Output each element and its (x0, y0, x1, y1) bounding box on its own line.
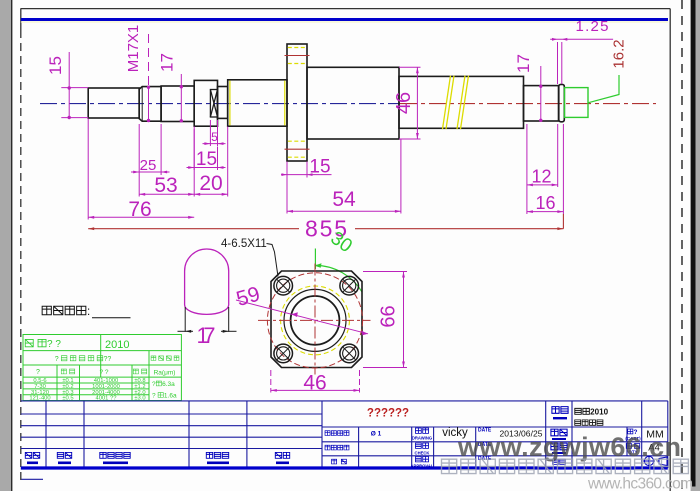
svg-text:Ø 1: Ø 1 (371, 431, 382, 438)
shaft section S2 (thread M17X1) (139, 87, 161, 122)
shaft section S7 (nut body d46) (307, 67, 399, 139)
dim 12 (526, 124, 528, 214)
shaft section S1 (left journal d15) (88, 88, 139, 118)
drawing frame right (669, 9, 671, 491)
arrows 15 flange (282, 173, 288, 176)
label 客户 (332, 459, 347, 464)
label 比例 (628, 429, 638, 436)
svg-text:4-6.5X11: 4-6.5X11 (221, 238, 267, 250)
yellow dashed circle (281, 286, 350, 355)
svg-text:??????: ?????? (367, 408, 409, 420)
arrows 16 (527, 210, 533, 213)
svg-text:1.6a: 1.6a (164, 393, 177, 400)
label 图号 (551, 429, 567, 436)
red bolt circle (267, 273, 362, 368)
flange side view (287, 44, 307, 161)
shaft section S4 (194, 80, 217, 126)
arrows 12 (527, 184, 533, 187)
bore circle outer (284, 289, 346, 351)
dim 66 (363, 272, 407, 368)
svg-text:??: ?? (103, 356, 111, 363)
dots 17 left (180, 85, 183, 88)
svg-text:5: 5 (211, 130, 218, 144)
thick blue bottom line (21, 466, 668, 469)
svg-text:DRAWING: DRAWING (412, 436, 432, 441)
blue header line (21, 18, 668, 21)
svg-text:17: 17 (158, 53, 177, 72)
svg-text:17: 17 (514, 54, 533, 73)
label 日期 (57, 452, 71, 458)
right gray margin band (696, 0, 700, 491)
green table subheader col4 (133, 369, 147, 374)
svg-text:?: ? (36, 369, 40, 376)
green table header row2 (25, 339, 61, 350)
svg-text:76: 76 (128, 198, 151, 221)
label 数量 (626, 444, 640, 449)
text 客户确认 (42, 306, 90, 318)
bolt holes (274, 276, 359, 362)
dim 53 (138, 175, 140, 197)
flange square (271, 271, 362, 368)
dim 17 right (540, 66, 542, 121)
circlip groove (559, 84, 565, 121)
arrows 1.25 (552, 38, 558, 41)
shaft section S6 (228, 80, 287, 126)
label 修改内容 (100, 452, 130, 458)
left paper edge line (11, 0, 13, 491)
dome shape (185, 249, 229, 314)
shaft section S3 (d17) (161, 86, 194, 122)
yellow dashed holes in flange side (288, 48, 306, 158)
red 855 arrows (88, 227, 563, 230)
svg-text:1.25: 1.25 (576, 18, 609, 35)
outer dashed trim line right (681, 0, 683, 491)
svg-text:15: 15 (309, 157, 330, 178)
yellow line S6 left (229, 81, 231, 126)
faint yellow line under blue (21, 21, 668, 23)
shaft section S8 (screw body) (399, 76, 524, 128)
svg-text:66: 66 (378, 305, 400, 327)
dots 17 right (539, 85, 542, 88)
text 日本2010 (575, 408, 609, 417)
yellow line S6 right (284, 81, 286, 126)
label 单位 (553, 459, 566, 464)
dim 1.25 (557, 42, 559, 84)
dim 59 diagonal (236, 300, 368, 334)
title block lines (322, 426, 668, 428)
label 修改者 (206, 452, 228, 458)
right paper edge black strip (691, 0, 696, 487)
yellow screw break marks (443, 76, 469, 130)
projection symbol (643, 456, 667, 467)
svg-text:? ?: ? ? (99, 369, 108, 376)
label 图名 (552, 407, 568, 414)
arrows 54 (287, 210, 293, 213)
svg-text:?: ? (55, 356, 59, 363)
green end piece (565, 75, 620, 117)
dim d15 left (61, 87, 88, 89)
svg-text:www.hc360.com: www.hc360.com (587, 476, 693, 491)
arrows 25 (133, 171, 139, 174)
svg-text:15: 15 (46, 56, 65, 75)
label 复核 (415, 443, 428, 448)
svg-text:25: 25 (140, 157, 157, 174)
red centerline vertical (314, 264, 316, 375)
svg-text:www.zgwjw66.cn: www.zgwjw66.cn (457, 432, 681, 462)
svg-text:2010: 2010 (105, 339, 129, 351)
dim 15 (S4) (193, 129, 195, 170)
svg-text:?: ? (152, 393, 156, 400)
svg-text:M17X1: M17X1 (125, 25, 142, 73)
left gray margin band (0, 0, 11, 491)
red bolt centers on flange side (285, 55, 310, 57)
dim 46 rotated (399, 66, 421, 68)
svg-text:46: 46 (303, 372, 326, 395)
dim 25 (138, 124, 140, 175)
dim 16 (562, 124, 564, 214)
svg-text:15: 15 (196, 149, 217, 170)
label 审认 (415, 457, 428, 462)
green table Ra value 1.6a (152, 393, 177, 400)
svg-text:?: ? (152, 381, 156, 388)
green table Ra value 6.3a (152, 381, 175, 388)
label 绘图 (415, 428, 428, 433)
svg-text:20: 20 (199, 172, 222, 195)
dim 20 (227, 127, 229, 197)
svg-text:? ?: ? ? (47, 339, 61, 350)
dome dim 17 (178, 307, 237, 332)
green 30 angular dim (314, 249, 362, 293)
label 序号 (25, 452, 39, 458)
main centerline left (dark blue dash-dot) (40, 103, 400, 105)
revision table top (21, 400, 668, 402)
arrows 5 (204, 142, 210, 145)
dim 54 (286, 178, 288, 214)
thread chamfer line (141, 87, 143, 122)
svg-text::: : (87, 306, 90, 318)
svg-text:17: 17 (197, 323, 216, 348)
dots for d15 (68, 86, 71, 89)
svg-text:Ra(μm): Ra(μm) (154, 370, 176, 377)
arrows 20 (194, 193, 200, 196)
label 材料 (551, 443, 567, 450)
svg-text:2010: 2010 (590, 408, 608, 417)
text 丝杆加工 (575, 420, 603, 425)
green leader (588, 75, 619, 103)
dim 855 red line (88, 214, 563, 229)
label 未注直角 (325, 431, 349, 436)
main centerline right (red dash-dot) (400, 103, 656, 105)
green table header row3 (55, 356, 112, 363)
dim 17 left (180, 74, 182, 122)
green table header 措西 (151, 356, 179, 360)
drawing frame left (dashed) (20, 9, 22, 30)
label 未注锐角 (325, 445, 349, 450)
drawing frame top (21, 8, 671, 10)
arrows 53 (139, 193, 145, 196)
svg-text:16.2: 16.2 (611, 39, 628, 68)
svg-text:APPROVAL: APPROVAL (411, 464, 434, 469)
dim 15 flange (286, 162, 288, 178)
dim 76 (87, 119, 89, 220)
arrows 15 S4 (188, 166, 194, 169)
label 备注 (275, 452, 289, 458)
dim 46 flange (271, 370, 360, 393)
svg-text:54: 54 (332, 188, 356, 211)
svg-text:46: 46 (393, 92, 415, 114)
dim M17X1 leader (148, 34, 150, 87)
small line below (21, 478, 43, 480)
shaft section S5 (218, 87, 228, 119)
dim 5 (209, 120, 211, 146)
watermark company name (442, 459, 689, 473)
svg-text:6.3a: 6.3a (162, 381, 175, 388)
shaft section S9 (right journal d17) (524, 86, 559, 121)
arrows 76 (88, 216, 94, 219)
svg-text:12: 12 (531, 167, 551, 187)
bore circle inner (291, 296, 340, 345)
arrows 46 rot (416, 67, 419, 73)
svg-text:CHECK: CHECK (415, 451, 430, 456)
dots M17 (147, 86, 150, 89)
svg-text:16: 16 (535, 193, 555, 213)
svg-text:53: 53 (154, 174, 177, 197)
keyway box with cross (210, 90, 217, 118)
red centerline horizontal (258, 319, 371, 321)
green table subheader col2 (61, 369, 75, 374)
